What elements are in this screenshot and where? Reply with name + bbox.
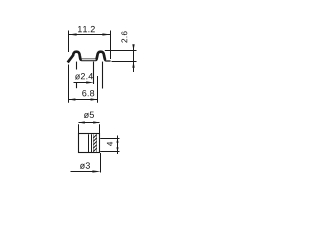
dim 2.6 extension line bottom xyxy=(112,61,137,63)
dim 6.8 left arrow xyxy=(68,98,75,100)
dim 11.2 label xyxy=(78,26,95,32)
bushing inner line 1 xyxy=(88,134,90,152)
dim 11.2 left arrow xyxy=(68,33,76,35)
knurl band right edge xyxy=(96,134,98,152)
dim 4 line xyxy=(117,136,119,155)
dim 11.2 right arrow xyxy=(102,33,110,35)
knurl band left edge xyxy=(92,134,94,152)
dim 11.2 line xyxy=(69,34,111,36)
dim 2.6 upper arrow xyxy=(132,44,134,51)
bushing inner line 2 xyxy=(91,134,93,152)
left pin (upper segment) xyxy=(76,62,78,70)
dim ø3 extension line right xyxy=(100,153,102,173)
dim ø5 left arrow xyxy=(78,121,85,123)
dim 4 extension line bottom xyxy=(100,151,119,153)
dim ø5 extension line right xyxy=(99,124,101,133)
dim 2.6 extension line top xyxy=(105,50,137,52)
dim 2.6 lower arrow xyxy=(132,61,134,67)
dim 2.6 label (rotated) xyxy=(121,31,127,42)
dim 6.8 right arrow xyxy=(91,98,98,100)
dim ø2.4 leader arrow xyxy=(74,82,88,84)
dim 2.6 line xyxy=(133,45,135,73)
dim ø5 right arrow xyxy=(93,121,100,123)
knurl hatch marks xyxy=(93,135,96,152)
dim 11.2 extension line right xyxy=(110,31,112,60)
dim 6.8 label xyxy=(82,90,94,96)
clip profile inner white core (double-line effect) xyxy=(82,59,96,61)
clip profile (top view sheet-metal contact) xyxy=(68,52,106,63)
dim 4 upper arrow xyxy=(116,138,118,142)
dim ø3 label xyxy=(80,162,90,168)
dim ø5 line xyxy=(79,122,100,124)
right pin right edge xyxy=(102,62,104,89)
dim 4 lower arrow xyxy=(116,147,118,151)
left pin (lower segment) xyxy=(76,83,78,88)
clip profile right end flat xyxy=(106,60,111,62)
right pin left edge xyxy=(93,62,95,84)
dim 11.2 extension line left xyxy=(68,31,70,53)
dim 4 label (rotated) xyxy=(107,142,113,146)
dim 6.8 line xyxy=(69,99,98,101)
dim ø5 extension line left xyxy=(78,124,80,133)
dim 4 extension line top xyxy=(100,138,119,140)
dim ø2.4 label xyxy=(75,73,93,79)
dim ø3 leader arrow xyxy=(71,171,94,173)
bushing body (bottom view) xyxy=(79,134,100,153)
dim 6.8 extension line left xyxy=(68,65,70,103)
dim ø5 label xyxy=(84,112,94,118)
dim 6.8 extension line right xyxy=(97,76,99,103)
